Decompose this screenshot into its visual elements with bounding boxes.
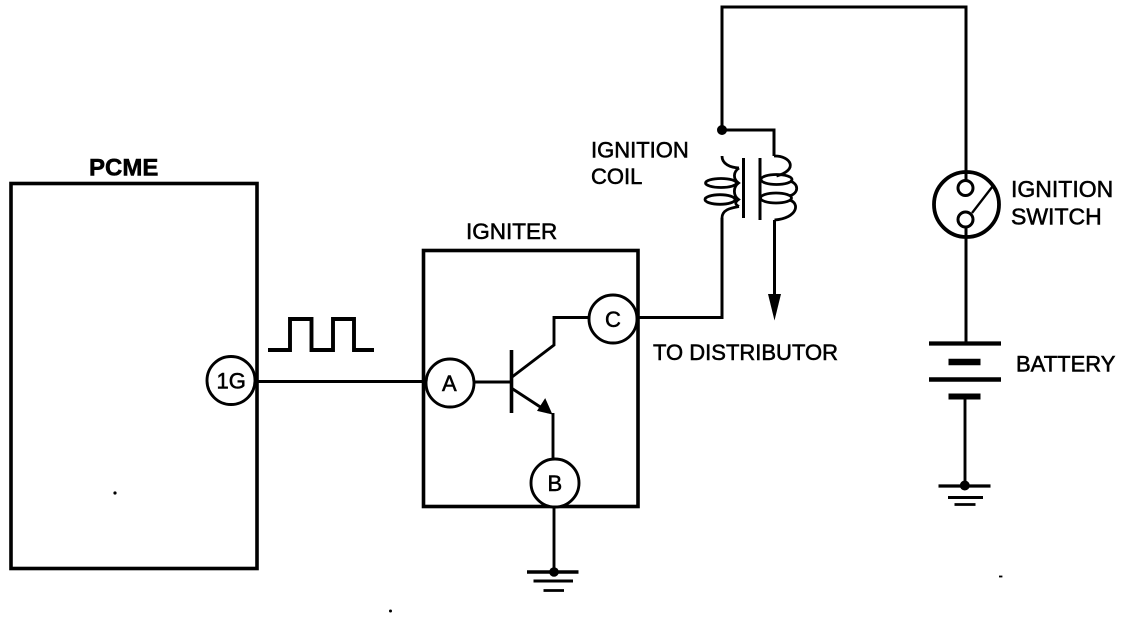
svg-text:BATTERY: BATTERY (1016, 352, 1116, 377)
ground below igniter (527, 567, 579, 590)
svg-text:B: B (548, 471, 563, 496)
ground below battery (939, 481, 991, 505)
speck (scan artifact) (999, 576, 1002, 578)
speck (scan artifact) (113, 491, 116, 494)
svg-text:A: A (442, 371, 457, 396)
transistor Q1 emitter lead with arrow (512, 389, 553, 415)
svg-text:IGNITION: IGNITION (591, 138, 689, 163)
pulse waveform symbol (268, 319, 374, 350)
transistor Q1 collector lead (512, 318, 590, 378)
wire 1G to A (254, 380, 430, 383)
PCME box (11, 184, 257, 569)
ignition switch SW (934, 172, 999, 237)
svg-text:IGNITION: IGNITION (1011, 176, 1113, 202)
node C (589, 295, 637, 343)
junction node at coil top (717, 125, 727, 135)
wire A to transistor base (472, 381, 511, 384)
wire top bus (coil to ignition switch) (722, 7, 966, 181)
wire switch to battery (965, 226, 968, 342)
wire junction to coil secondary (722, 130, 774, 156)
IGNITER box (424, 251, 639, 507)
ignition coil T1 (705, 156, 797, 220)
wire C to ignition coil (637, 218, 722, 318)
svg-text:C: C (605, 307, 621, 332)
svg-text:PCME: PCME (89, 155, 158, 182)
wire battery to ground (964, 399, 967, 485)
label IGNITION COIL (591, 138, 689, 190)
node A (426, 359, 474, 407)
wire B to ground (553, 507, 556, 572)
node 1G (207, 357, 255, 405)
speck (scan artifact) (389, 610, 392, 613)
wire coil secondary to distributor arrow (768, 220, 781, 321)
svg-text:COIL: COIL (591, 164, 642, 189)
svg-text:IGNITER: IGNITER (466, 219, 557, 244)
svg-text:1G: 1G (217, 369, 246, 394)
transistor Q1 base bar (510, 350, 514, 413)
node B (531, 459, 579, 507)
label IGNITION SWITCH (1011, 176, 1113, 230)
wire emitter to B (552, 413, 555, 462)
svg-text:TO DISTRIBUTOR: TO DISTRIBUTOR (653, 340, 838, 365)
svg-text:SWITCH: SWITCH (1011, 204, 1102, 230)
battery (929, 344, 1001, 397)
